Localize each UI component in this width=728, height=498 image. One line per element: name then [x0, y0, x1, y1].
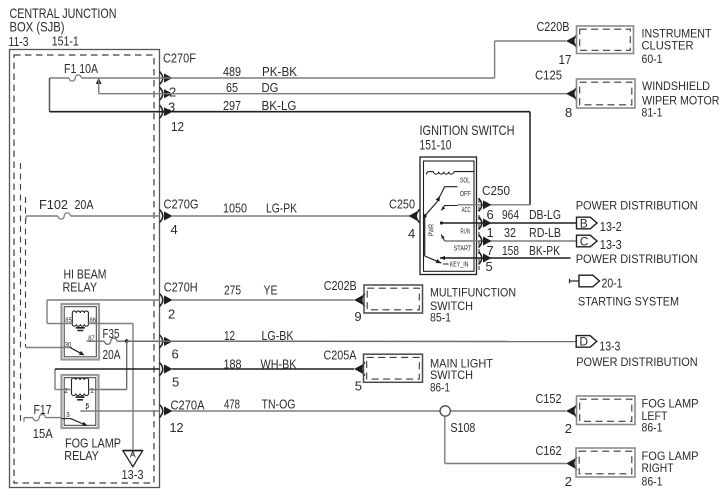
OFF label [460, 191, 471, 198]
svg-text:151-1: 151-1 [52, 34, 79, 49]
pin 4 label [171, 222, 178, 237]
svg-text:DG: DG [262, 80, 279, 95]
pin 12 label (C270A) [170, 420, 184, 435]
C250 pin arrow row 32 [479, 235, 492, 248]
connector C270H arrow [160, 294, 173, 307]
svg-text:85-1: 85-1 [430, 311, 451, 325]
connector C270G arrow [160, 210, 173, 223]
svg-text:32: 32 [504, 225, 516, 240]
svg-text:86-1: 86-1 [642, 421, 663, 435]
svg-text:BK-PK: BK-PK [529, 243, 560, 258]
svg-text:F17: F17 [34, 402, 52, 417]
power distribution label 2 [576, 252, 698, 266]
wire 1050 LG-PK [172, 215, 410, 217]
pin 5 label (C205A) [355, 379, 362, 394]
svg-text:C270H: C270H [164, 280, 198, 295]
svg-text:OFF: OFF [460, 191, 471, 198]
svg-text:489: 489 [223, 64, 241, 79]
svg-text:F102: F102 [39, 197, 68, 212]
svg-text:BOX (SJB): BOX (SJB) [10, 19, 65, 35]
connector C152 label [536, 391, 562, 406]
svg-text:11-3: 11-3 [9, 34, 29, 49]
pin 17 label [559, 52, 572, 67]
svg-text:B: B [580, 216, 588, 230]
svg-text:5: 5 [172, 375, 179, 390]
connector C202B label [324, 278, 357, 293]
svg-text:DB-LG: DB-LG [529, 207, 561, 222]
ACC contact [440, 206, 457, 212]
wire 275 label [224, 283, 278, 298]
ignition switch outer box [420, 157, 477, 275]
hi beam relay coil [72, 311, 88, 331]
pin 5 label [86, 403, 90, 410]
pin 5 label [486, 259, 493, 274]
fog lamp relay coil [72, 378, 89, 400]
fuse F102 [26, 213, 160, 219]
svg-text:12: 12 [224, 328, 235, 343]
svg-text:WINDSHIELD: WINDSHIELD [642, 79, 710, 93]
wire 489 label [223, 64, 297, 79]
fuse F1 label [64, 61, 98, 76]
junction node on wire 489 [96, 77, 102, 84]
wire S108 branch to C162 [445, 416, 566, 463]
svg-text:1050: 1050 [223, 201, 247, 216]
fog lamp right box [576, 448, 635, 477]
fog lamp left label [642, 397, 699, 435]
svg-text:A: A [130, 450, 136, 460]
svg-text:C270A: C270A [171, 398, 205, 413]
pin 7 label [487, 243, 494, 258]
power distribution label 3 [576, 355, 698, 369]
svg-text:13-3: 13-3 [599, 339, 620, 354]
pin 12 label [171, 119, 184, 134]
wire 478 label [224, 397, 296, 412]
C250 pin arrow ACC row [479, 198, 492, 211]
svg-text:2: 2 [169, 85, 176, 100]
vertical wire junction to wire 65 [98, 78, 100, 94]
svg-text:15A: 15A [33, 426, 53, 441]
svg-text:D: D [579, 335, 588, 349]
svg-text:297: 297 [223, 98, 241, 113]
svg-text:20-1: 20-1 [602, 276, 623, 291]
svg-text:13-2: 13-2 [600, 219, 622, 234]
wire 158 BK-PK [440, 256, 571, 260]
wire 158 label [502, 243, 560, 258]
connector C270H label [164, 280, 198, 295]
flag B [577, 216, 598, 230]
ignition switch inner box [424, 161, 475, 271]
connector C250 right label [482, 183, 510, 198]
svg-text:9: 9 [354, 309, 361, 324]
svg-text:CLUSTER: CLUSTER [642, 39, 694, 53]
wire 964 label [502, 207, 561, 222]
wire 297 BK-LG [50, 112, 531, 205]
connector C162 arrow [566, 457, 577, 470]
svg-text:STARTING SYSTEM: STARTING SYSTEM [578, 295, 679, 309]
RUN contact node [440, 221, 443, 224]
CJB internal dashed bus line 2 [25, 197, 27, 347]
connector C270G label [164, 197, 199, 212]
svg-text:86-1: 86-1 [642, 475, 663, 489]
svg-text:C205A: C205A [324, 348, 357, 363]
CJB internal dashed bus line 1 [20, 163, 22, 425]
starting system label [578, 295, 679, 309]
svg-text:6: 6 [487, 207, 494, 222]
vertical wire F1-left to wire 297 [49, 78, 51, 112]
hi beam coil wire left (wire 275 branch) [47, 300, 72, 324]
central junction box solid outline [10, 50, 160, 488]
junction node F35/fog coil [125, 339, 129, 343]
switch arm from pivot [425, 202, 437, 216]
svg-text:PK-BK: PK-BK [262, 64, 297, 79]
main light switch label [430, 357, 494, 395]
pin 1 label [90, 388, 94, 395]
pin 6 label (C270) [172, 347, 179, 362]
svg-text:F35: F35 [103, 326, 120, 341]
svg-text:12: 12 [170, 420, 184, 435]
pin 2 label [169, 85, 176, 100]
connector C270F pin arrow row2 [160, 87, 173, 100]
svg-text:1: 1 [487, 225, 494, 240]
svg-text:RUN: RUN [461, 229, 471, 236]
svg-text:BK-LG: BK-LG [262, 98, 297, 113]
13-3 label under triangle [122, 467, 144, 482]
svg-text:5: 5 [355, 379, 362, 394]
wire ACC row to connector [458, 204, 492, 206]
pin 5 contact stub [80, 404, 98, 411]
KEY_IN arm [425, 216, 442, 265]
fog lamp relay box [62, 375, 99, 428]
pin 8 label [565, 105, 572, 120]
wire F35 junction down to fog relay coil [99, 341, 127, 389]
svg-text:8: 8 [565, 105, 572, 120]
contact tail row 32 [440, 234, 445, 241]
multifunction switch label [430, 286, 516, 325]
fuse F102 label [39, 197, 94, 212]
svg-text:TN-OG: TN-OG [262, 397, 296, 412]
connector C250 left label [389, 197, 415, 212]
pin 1 label [487, 225, 494, 240]
wire 489 feed + fuse F1 [50, 75, 99, 81]
13-3 label (flag D) [599, 339, 620, 354]
svg-text:C: C [580, 234, 589, 248]
svg-text:7: 7 [487, 243, 494, 258]
svg-text:SOL: SOL [460, 178, 470, 185]
svg-text:S108: S108 [450, 420, 475, 435]
central junction box title [9, 5, 117, 49]
svg-text:ACC: ACC [462, 207, 471, 214]
connector C205A arrow [354, 363, 365, 376]
wire 65 label [226, 80, 279, 95]
hi beam relay label [63, 267, 107, 295]
svg-text:POWER DISTRIBUTION: POWER DISTRIBUTION [576, 355, 698, 369]
flag C [577, 234, 598, 248]
wire 32 RD-LB [445, 240, 577, 242]
connector arrow row 12 [160, 335, 173, 348]
connector C270A label [171, 398, 205, 413]
svg-text:POWER DISTRIBUTION: POWER DISTRIBUTION [576, 199, 698, 213]
fuse F17 [24, 414, 62, 421]
svg-text:275: 275 [224, 283, 241, 298]
START label [454, 246, 472, 253]
svg-text:START: START [454, 246, 472, 253]
svg-text:5: 5 [486, 259, 493, 274]
connector C162 label [536, 443, 562, 458]
svg-text:C125: C125 [535, 68, 562, 83]
pin 30 contact + arm [26, 348, 86, 358]
pin 9 label [354, 309, 361, 324]
svg-text:LG-PK: LG-PK [266, 201, 297, 216]
connector C220B arrow [566, 35, 577, 48]
pin 2 label [64, 388, 68, 395]
fog coil stub right [89, 389, 99, 391]
wire 478 TN-OG [99, 410, 567, 412]
C250 pin arrow row 964 [479, 217, 492, 230]
svg-text:478: 478 [224, 397, 240, 412]
pin 3 label [168, 100, 175, 115]
svg-text:RD-LB: RD-LB [529, 225, 561, 240]
svg-text:188: 188 [224, 357, 242, 372]
PWR label (rotated) [429, 224, 436, 236]
instrument cluster label [642, 27, 713, 67]
fog lamp left box [577, 396, 636, 425]
svg-text:C202B: C202B [324, 278, 357, 293]
svg-text:964: 964 [502, 207, 519, 222]
RUN label [461, 229, 471, 236]
20-1 label [602, 276, 623, 291]
KEY_IN label [450, 262, 469, 269]
connector C270F label [163, 51, 196, 66]
pin 2 label (C162) [565, 474, 572, 489]
pin 3 contact + arm [62, 419, 89, 428]
ignition switch title [420, 122, 515, 153]
solenoid coil [427, 172, 475, 175]
13-3 label [600, 237, 622, 252]
main light switch box [364, 354, 423, 382]
splice S108 [440, 406, 450, 416]
svg-text:YE: YE [264, 283, 278, 298]
svg-text:C250: C250 [482, 183, 510, 198]
connector C125 arrow [566, 87, 577, 100]
pin 3 label [66, 412, 70, 419]
pin 30 label [65, 342, 72, 349]
wire 188 label [224, 357, 297, 372]
pin 87 label [88, 336, 95, 343]
multifunction switch box [364, 285, 423, 313]
svg-text:C250: C250 [389, 197, 415, 212]
pin 6 label [487, 207, 494, 222]
S108 label [450, 420, 475, 435]
svg-text:13-3: 13-3 [600, 237, 622, 252]
SOL label [460, 178, 470, 185]
13-2 label [600, 219, 622, 234]
svg-text:KEY_IN: KEY_IN [450, 262, 469, 269]
svg-text:C152: C152 [536, 391, 562, 406]
svg-text:RELAY: RELAY [63, 280, 98, 295]
wire 32 label [504, 225, 561, 240]
wire 1050 label [223, 201, 297, 216]
fog lamp relay label [64, 436, 121, 464]
wire 489 PK-BK [99, 41, 566, 78]
connector C152 arrow [566, 405, 577, 418]
ground flag A triangle [123, 450, 143, 467]
pivot node [423, 214, 427, 218]
svg-text:17: 17 [559, 52, 572, 67]
svg-text:81-1: 81-1 [642, 106, 663, 120]
OFF contact [436, 187, 458, 202]
connector C205A label [324, 348, 357, 363]
svg-text:WH-BK: WH-BK [261, 357, 297, 372]
fog coil wire left (wire 188 branch) [55, 369, 72, 390]
wire 12 label [224, 328, 294, 343]
svg-text:158: 158 [502, 243, 519, 258]
svg-text:86-1: 86-1 [430, 381, 450, 395]
windshield wiper motor box [577, 79, 636, 108]
svg-text:20A: 20A [75, 197, 94, 212]
C250 pin arrow row 158 [479, 252, 492, 265]
svg-text:PWR: PWR [429, 224, 436, 236]
pin 87 contact stub + wire to fuse F35 [87, 338, 127, 344]
svg-text:2: 2 [565, 474, 572, 489]
pin 2 label (C270H) [168, 307, 175, 322]
flag D [576, 335, 597, 349]
svg-text:6: 6 [172, 347, 179, 362]
central junction box dashed outline [14, 55, 154, 483]
svg-text:C270F: C270F [163, 51, 196, 66]
windshield wiper motor label [642, 79, 720, 120]
svg-text:2: 2 [565, 421, 572, 436]
instrument cluster box [577, 26, 634, 54]
svg-text:POWER DISTRIBUTION: POWER DISTRIBUTION [576, 252, 698, 266]
pin 2 label (C152) [565, 421, 572, 436]
connector C202B arrow [354, 294, 365, 307]
connector C250 right dashed line [478, 198, 480, 270]
svg-text:LG-BK: LG-BK [262, 328, 294, 343]
svg-text:4: 4 [408, 226, 415, 241]
svg-text:60-1: 60-1 [642, 52, 663, 66]
KEY_IN stub [443, 263, 449, 265]
svg-text:2: 2 [168, 307, 175, 322]
ACC label [462, 207, 471, 214]
wire 297 label [223, 98, 297, 113]
svg-text:4: 4 [171, 222, 178, 237]
pin 86 label [90, 317, 97, 324]
fog lamp right label [642, 449, 699, 489]
svg-text:65: 65 [226, 80, 238, 95]
svg-text:RELAY: RELAY [64, 448, 99, 463]
hi beam coil wire right to ground flag [88, 324, 133, 456]
pin 85 label [65, 317, 72, 324]
connector C250 left arrow [409, 210, 420, 223]
wire 65 DG [99, 93, 567, 95]
svg-text:F1 10A: F1 10A [64, 61, 98, 76]
fuse F17 label [33, 402, 53, 441]
flag 20-1 [570, 275, 600, 287]
svg-text:151-10: 151-10 [420, 137, 452, 153]
connector C270A arrow [160, 405, 173, 418]
wire 188 WH-BK [55, 368, 354, 370]
wire 275 YE [47, 299, 354, 301]
pin 5 label (C270) [172, 375, 179, 390]
wire start tick F102 [25, 216, 27, 221]
connector C270F pin arrow row1 [160, 72, 173, 85]
wire 964 DB-LG [442, 222, 577, 224]
fuse F35 label [103, 326, 121, 362]
hi beam relay box [62, 304, 100, 360]
power distribution label 1 [576, 199, 698, 213]
svg-text:20A: 20A [103, 347, 121, 362]
svg-text:C162: C162 [536, 443, 562, 458]
connector C125 label [535, 68, 562, 83]
pin 4 label (C250) [408, 226, 415, 241]
svg-text:13-3: 13-3 [122, 467, 144, 482]
wire 12 LG-BK [127, 340, 577, 342]
svg-text:12: 12 [171, 119, 184, 134]
connector C270F pin arrow row3 [160, 105, 173, 118]
svg-text:C220B: C220B [537, 19, 570, 34]
connector arrow row 188 [160, 363, 173, 376]
connector C220B label [537, 19, 570, 34]
svg-text:C270G: C270G [164, 197, 199, 212]
svg-text:MULTIFUNCTION: MULTIFUNCTION [430, 286, 516, 300]
svg-text:RIGHT: RIGHT [642, 461, 675, 475]
